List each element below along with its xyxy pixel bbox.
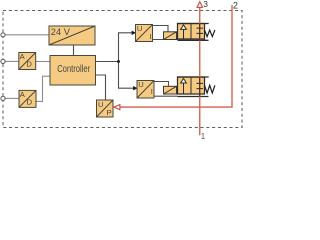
proportional solenoid 2 [164,86,177,94]
U/P pressure sensor [97,100,114,117]
proportional solenoid 1 [164,32,177,40]
red pressure line port 3 to port 1 [199,7,201,135]
svg-text:2: 2 [233,1,238,11]
pilot valve 1 body [178,24,205,40]
wire 24V supply to controller [73,45,75,56]
terminal circle 1 [1,33,5,37]
wire controller to U/P sensor [96,75,106,100]
svg-text:U: U [138,80,143,89]
svg-text:I: I [150,32,152,41]
svg-text:3: 3 [203,0,208,9]
arrowhead into U/I 2 [133,86,138,90]
port 3 exhaust arrowhead [197,2,203,8]
svg-text:D: D [27,98,33,107]
controller block [50,56,96,86]
wire from terminal 2 to A/D 1 [5,60,19,62]
pilot valve 2 bottom rail [178,96,209,98]
svg-text:24 V: 24 V [51,27,71,37]
svg-text:U: U [98,100,103,109]
wire U/I 1 lower lead to valve 1 [153,39,178,41]
wire A/D 1 to controller [36,61,50,63]
U/I converter 2 [137,80,154,98]
A/D converter 1 [19,52,36,70]
valve 1 blocked port symbol [196,24,203,41]
U/I converter 1 [136,24,153,42]
pilot valve 2 return spring [205,85,215,93]
valve 2 blocked port symbol [196,77,203,97]
arrowhead into U/P sensor [114,105,120,110]
wire U/I 2 upper lead to solenoid 2 [154,82,169,87]
valve 2 flow triangle [181,78,187,83]
wire from terminal 1 to 24V supply [5,34,49,36]
svg-text:I: I [151,87,153,96]
wire from terminal 3 to A/D 2 [5,97,19,99]
pilot valve 1 top rail [177,23,209,25]
wire U/I 1 upper lead to solenoid 1 [153,26,169,32]
svg-text:1: 1 [201,132,206,141]
pilot valve 2 top rail [177,76,209,78]
svg-text:Controller: Controller [57,64,91,75]
valve 1 flow stem [183,29,185,39]
enclosure dashed boundary [3,11,242,128]
wire U/I 2 lower lead to valve 2 [154,95,178,97]
wire junction down to U/I 2 [119,62,134,89]
valve 1 flow triangle [181,25,187,30]
valve 2 flow stem [183,83,185,94]
terminal circle 3 [1,96,5,100]
red pressure line port 2 to U/P sensor [120,5,232,107]
svg-text:P: P [107,108,112,117]
arrowhead into U/I 1 [132,31,137,35]
svg-text:D: D [26,60,32,69]
wire junction up to U/I 1 [119,33,133,62]
24V power supply block [49,26,95,45]
terminal circle 2 [1,59,5,63]
pilot valve 1 bottom rail [178,39,209,41]
wire A/D 2 to controller [36,76,50,101]
svg-text:U: U [137,24,142,33]
pilot valve 2 body [178,77,205,94]
wire controller to junction [96,61,119,63]
A/D converter 2 [19,90,36,108]
junction dot [117,60,120,63]
pilot valve 1 return spring [205,30,215,37]
